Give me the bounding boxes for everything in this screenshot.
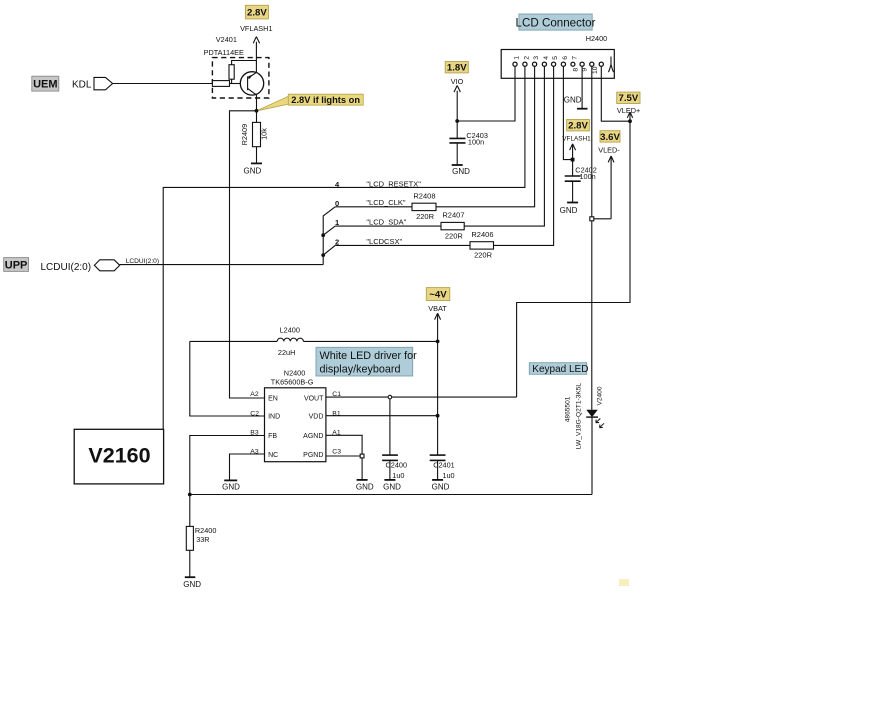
wire AGND (326, 435, 362, 456)
ground under R2409 (244, 147, 262, 176)
svg-text:UEM: UEM (33, 79, 57, 91)
svg-text:2.8V if lights on: 2.8V if lights on (291, 95, 360, 105)
junction square VLED- (590, 217, 594, 221)
junction square AGND/PGND (360, 454, 364, 458)
node VLED+ (628, 119, 632, 123)
pin 5 (552, 62, 556, 66)
ground under C2403 (452, 165, 470, 176)
callout 2.8V if lights on (257, 94, 363, 111)
wire pin10 to VLED+ node (601, 67, 630, 122)
svg-text:AGND: AGND (303, 433, 323, 440)
svg-text:8: 8 (572, 68, 579, 72)
svg-text:GND: GND (356, 482, 374, 491)
svg-text:GND: GND (560, 206, 578, 215)
power flag ~4V VBAT (426, 288, 450, 455)
LED V2400 (565, 383, 604, 495)
svg-text:C3: C3 (332, 449, 341, 456)
power flag 3.6V VLED- (598, 131, 620, 219)
ground pin8 (564, 95, 588, 108)
svg-text:PGND: PGND (303, 452, 323, 459)
svg-text:VLED+: VLED+ (617, 106, 640, 115)
svg-text:4: 4 (543, 56, 550, 60)
IC N2400 TK65600B-G (265, 368, 326, 461)
svg-text:LCDUI(2:0): LCDUI(2:0) (126, 258, 159, 265)
svg-text:VBAT: VBAT (428, 304, 447, 313)
UPP label (4, 258, 29, 272)
svg-text:100n: 100n (468, 138, 484, 147)
svg-text:A3: A3 (250, 449, 259, 456)
svg-text:100n: 100n (580, 172, 596, 181)
UEM label (32, 76, 59, 91)
pin 1 (513, 62, 517, 66)
pin 6 (561, 62, 565, 66)
wire FB (190, 436, 265, 495)
node VDD/VBAT (436, 414, 440, 418)
capacitor C2402 100n (565, 160, 597, 203)
svg-text:LCDUI(2:0): LCDUI(2:0) (41, 262, 92, 273)
svg-text:"LCDCSX": "LCDCSX" (366, 237, 402, 246)
resistor R2400 33R (186, 495, 216, 578)
svg-text:GND: GND (222, 483, 240, 492)
node VBAT/L2400 (436, 340, 440, 344)
svg-text:VDD: VDD (309, 414, 324, 421)
capacitor C2400 1u0 (382, 399, 407, 480)
svg-text:220R: 220R (474, 251, 493, 260)
polarity mark (609, 57, 614, 73)
KDL signal flag (72, 77, 113, 90)
net LCD_CLK row (323, 198, 412, 264)
svg-text:GND: GND (564, 95, 582, 104)
svg-text:NC: NC (268, 452, 278, 459)
svg-text:2: 2 (523, 56, 530, 60)
wire node to EN vertical (230, 111, 265, 398)
svg-text:Keypad LED: Keypad LED (532, 364, 588, 375)
svg-text:VFLASH1: VFLASH1 (562, 136, 591, 143)
ground under C2402 (560, 203, 578, 215)
svg-text:3.6V: 3.6V (600, 132, 620, 143)
wire NC to gnd (230, 454, 265, 480)
svg-text:1.8V: 1.8V (447, 63, 467, 74)
bus wire LCDUI (120, 264, 324, 266)
svg-text:7: 7 (571, 56, 578, 60)
svg-text:3: 3 (533, 56, 540, 60)
svg-text:1: 1 (513, 56, 520, 60)
svg-text:LCD Connector: LCD Connector (516, 16, 596, 29)
capacitor C2401 1u0 (430, 455, 455, 480)
node collector junction (255, 109, 259, 113)
svg-text:VFLASH1: VFLASH1 (240, 24, 272, 33)
svg-text:PDTA114EE: PDTA114EE (204, 48, 244, 57)
svg-text:V2400: V2400 (596, 386, 603, 405)
net LCD_SDA row (321, 218, 441, 238)
svg-text:R2406: R2406 (471, 230, 493, 239)
wire KDL to base (113, 83, 213, 85)
pin 8 (580, 62, 584, 66)
wire pin9 down to LED (591, 67, 593, 410)
wire VLED+ to VOUT (right loop) (517, 121, 630, 397)
wire IND (190, 341, 265, 416)
pin 4 (542, 62, 546, 66)
power flag 1.8V VIO (445, 62, 468, 122)
ground under C2400 (383, 480, 401, 492)
wire pin6 to VFLASH1 node (563, 67, 572, 160)
svg-text:VOUT: VOUT (304, 396, 324, 403)
svg-text:EN: EN (268, 396, 278, 403)
svg-text:4865501: 4865501 (565, 396, 572, 422)
svg-text:1u0: 1u0 (392, 471, 404, 480)
wire to gnd (361, 458, 363, 480)
White LED driver label (316, 347, 417, 376)
svg-text:9: 9 (582, 68, 589, 72)
svg-text:10: 10 (592, 66, 599, 74)
power flag 2.8V VFLASH1 top (240, 5, 272, 72)
svg-text:V2401: V2401 (216, 35, 237, 44)
svg-text:display/keyboard: display/keyboard (320, 363, 401, 375)
yellow speck (619, 579, 629, 586)
svg-text:N2400: N2400 (284, 368, 306, 377)
LCD Connector label (516, 14, 596, 30)
svg-text:220R: 220R (445, 231, 464, 240)
V2160 box (74, 429, 163, 484)
wire pin1 to VIO node (457, 67, 515, 122)
svg-text:GND: GND (383, 482, 401, 491)
svg-text:C2400: C2400 (386, 461, 408, 470)
svg-text:1u0: 1u0 (442, 471, 454, 480)
resistor R2406 220R (470, 67, 554, 260)
svg-text:H2400: H2400 (586, 34, 608, 43)
svg-text:A2: A2 (250, 391, 259, 398)
svg-text:LW_V18G-Q2T1-3K5L: LW_V18G-Q2T1-3K5L (576, 383, 583, 450)
svg-text:VLED-: VLED- (598, 145, 620, 154)
capacitor C2403 100n (449, 121, 488, 165)
svg-text:2.8V: 2.8V (247, 8, 267, 19)
inductor L2400 22uH (190, 326, 438, 357)
ground under C2401 (432, 480, 450, 492)
net LCD_RESETX row (163, 67, 525, 430)
connector H2400 (501, 34, 614, 78)
svg-text:C2401: C2401 (433, 461, 455, 470)
svg-text:GND: GND (452, 167, 470, 176)
net LCDCSX row (321, 237, 470, 257)
svg-text:GND: GND (432, 482, 450, 491)
svg-text:~4V: ~4V (429, 290, 447, 301)
svg-text:FB: FB (268, 433, 277, 440)
power flag 7.5V VLED+ (617, 92, 641, 121)
svg-text:IND: IND (268, 414, 280, 421)
svg-text:R2409: R2409 (240, 124, 249, 146)
svg-text:GND: GND (183, 580, 201, 589)
svg-text:7.5V: 7.5V (619, 93, 639, 104)
svg-text:L2400: L2400 (280, 326, 300, 335)
wire VOUT row (326, 396, 517, 398)
power flag 2.8V VFLASH1 at connector (562, 120, 591, 160)
junction open circle C2400 tap (388, 395, 392, 399)
wire VDD row (326, 415, 438, 417)
svg-text:V2160: V2160 (88, 444, 150, 468)
svg-text:22uH: 22uH (278, 348, 295, 357)
LCDUI(2:0) bus flag (41, 258, 160, 273)
svg-text:2.8V: 2.8V (568, 121, 588, 132)
svg-text:R2408: R2408 (413, 191, 435, 200)
svg-text:B1: B1 (332, 410, 341, 417)
ground AGND/PGND (356, 480, 374, 492)
svg-text:R2407: R2407 (442, 211, 464, 220)
ground under R2400 (183, 577, 201, 589)
transistor V2401 PDTA114EE (204, 35, 269, 111)
svg-text:"LCD_CLK": "LCD_CLK" (366, 198, 405, 207)
ground NC (222, 480, 240, 491)
svg-text:R2400: R2400 (195, 526, 217, 535)
svg-text:220R: 220R (416, 212, 435, 221)
svg-text:10k: 10k (259, 128, 268, 140)
svg-text:VIO: VIO (451, 77, 464, 86)
pin 2 (523, 62, 527, 66)
svg-text:White LED driver for: White LED driver for (320, 350, 418, 362)
pin 7 (n.c.) (571, 62, 575, 66)
svg-text:"LCD_SDA": "LCD_SDA" (366, 218, 406, 227)
wire pin8 to GND (581, 67, 583, 109)
svg-text:33R: 33R (196, 535, 209, 544)
svg-text:GND: GND (244, 166, 262, 175)
wire VLED- tap (592, 218, 611, 220)
svg-text:KDL: KDL (72, 80, 92, 91)
node FB/rail (188, 493, 192, 497)
wire PGND (326, 455, 362, 457)
resistor R2409 10k (240, 111, 268, 147)
Keypad LED label (529, 363, 588, 375)
rail wire bottom (190, 494, 592, 496)
pin 9 (590, 62, 594, 66)
svg-text:6: 6 (562, 56, 569, 60)
svg-text:UPP: UPP (5, 260, 28, 272)
svg-text:TK65600B-G: TK65600B-G (271, 378, 314, 387)
resistor R2407 220R (441, 67, 544, 241)
svg-text:5: 5 (552, 56, 559, 60)
pin 3 (533, 62, 537, 66)
resistor R2408 220R (412, 67, 535, 222)
node VFLASH1 (571, 158, 575, 162)
pin 10 (599, 62, 603, 66)
node VIO (455, 119, 459, 123)
